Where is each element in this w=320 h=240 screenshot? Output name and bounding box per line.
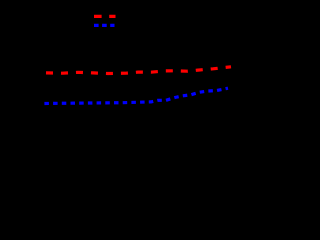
red dashed series line [46,67,231,74]
legend blue dash sample [94,24,115,27]
legend red dash sample [94,15,116,18]
blue dashed series line [44,88,228,103]
